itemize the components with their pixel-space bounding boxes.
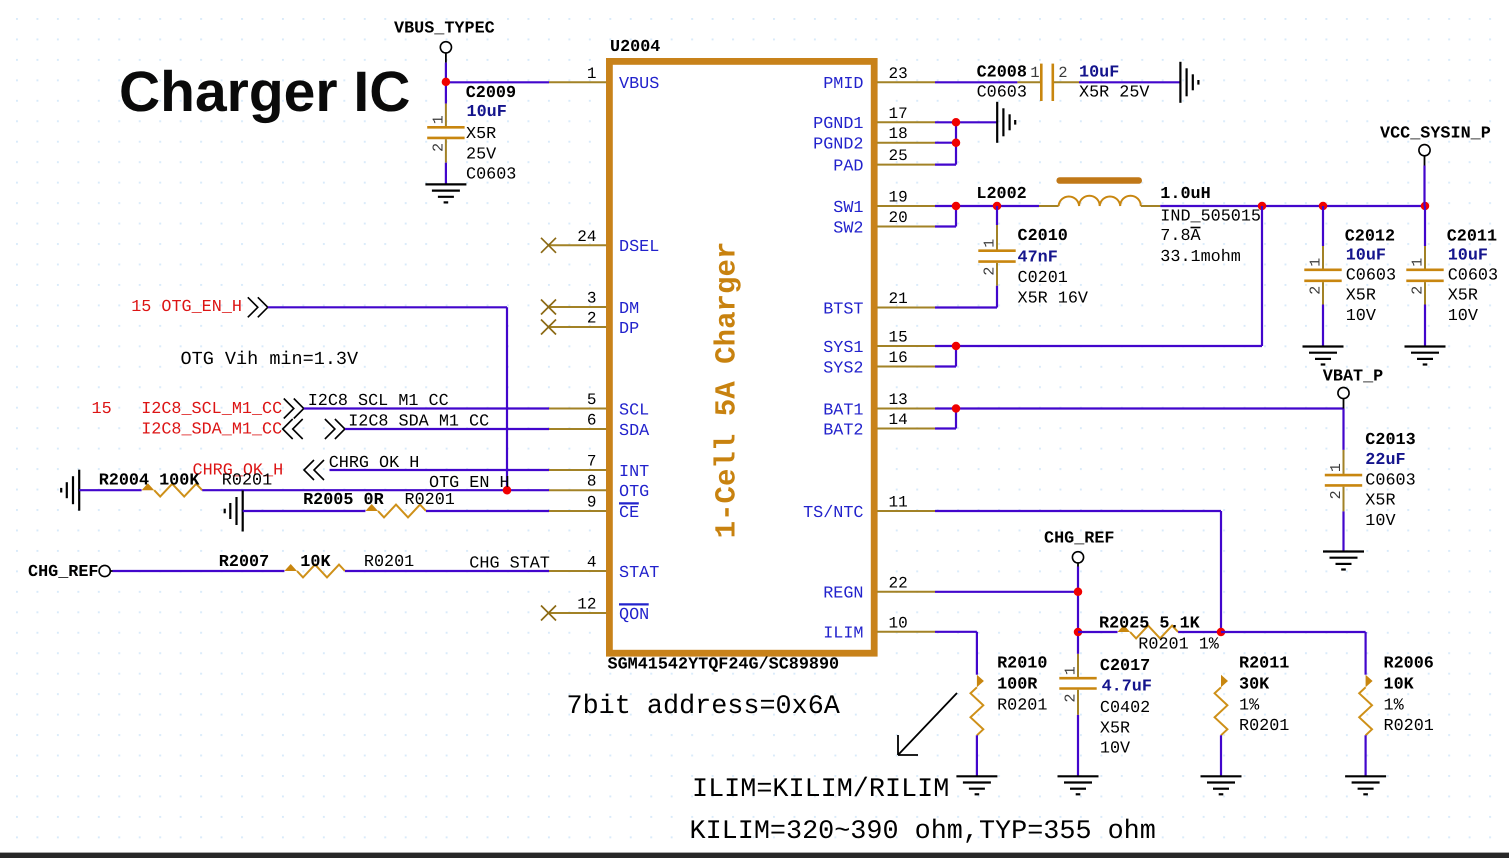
- svg-text:5: 5: [587, 391, 597, 409]
- svg-text:C2011: C2011: [1447, 228, 1497, 247]
- svg-text:CHG_REF: CHG_REF: [1044, 530, 1115, 549]
- svg-text:7: 7: [587, 453, 597, 471]
- svg-text:IND_505015: IND_505015: [1160, 207, 1261, 226]
- svg-text:R2006: R2006: [1384, 655, 1434, 674]
- svg-text:OTG: OTG: [619, 483, 649, 502]
- svg-text:22uF: 22uF: [1365, 451, 1405, 470]
- svg-text:SDA: SDA: [619, 422, 650, 441]
- svg-text:1: 1: [1328, 463, 1345, 472]
- svg-text:R0201: R0201: [997, 696, 1047, 715]
- svg-text:7.8A: 7.8A: [1160, 227, 1201, 246]
- svg-text:U2004: U2004: [610, 38, 660, 57]
- svg-text:I2C8 SCL M1 CC: I2C8 SCL M1 CC: [308, 392, 449, 411]
- svg-text:10uF: 10uF: [1448, 246, 1488, 265]
- svg-text:PGND1: PGND1: [813, 115, 863, 134]
- svg-text:R2025 5.1K: R2025 5.1K: [1099, 615, 1201, 634]
- svg-text:17: 17: [889, 105, 908, 123]
- svg-text:SGM41542YTQF24G/SC89890: SGM41542YTQF24G/SC89890: [608, 656, 840, 675]
- svg-text:REGN: REGN: [823, 585, 863, 604]
- svg-text:47nF: 47nF: [1018, 249, 1058, 268]
- svg-text:R0201: R0201: [222, 472, 272, 491]
- svg-text:PMID: PMID: [823, 75, 863, 94]
- svg-text:10K: 10K: [300, 553, 331, 572]
- svg-text:24: 24: [577, 228, 596, 246]
- svg-text:C0603: C0603: [466, 166, 516, 185]
- svg-text:X5R: X5R: [1365, 492, 1395, 511]
- svg-text:X5R 16V: X5R 16V: [1018, 290, 1089, 309]
- svg-text:20: 20: [889, 209, 908, 227]
- svg-text:X5R: X5R: [1448, 287, 1478, 306]
- svg-text:SCL: SCL: [619, 401, 649, 420]
- svg-text:33.1mohm: 33.1mohm: [1160, 248, 1241, 267]
- svg-text:6: 6: [587, 412, 597, 430]
- svg-text:1%: 1%: [1239, 696, 1260, 715]
- svg-text:19: 19: [889, 189, 908, 207]
- svg-text:4: 4: [587, 554, 597, 572]
- svg-text:9: 9: [587, 494, 597, 512]
- svg-text:10V: 10V: [1448, 307, 1478, 326]
- svg-text:CE: CE: [619, 504, 639, 523]
- svg-text:CHRG OK H: CHRG OK H: [329, 454, 420, 473]
- svg-text:R2010: R2010: [997, 655, 1047, 674]
- svg-text:ILIM=KILIM/RILIM: ILIM=KILIM/RILIM: [692, 775, 949, 805]
- svg-text:VBAT_P: VBAT_P: [1323, 368, 1383, 387]
- svg-text:16: 16: [889, 349, 908, 367]
- svg-text:BAT1: BAT1: [823, 401, 863, 420]
- svg-text:DSEL: DSEL: [619, 238, 659, 257]
- svg-text:30K: 30K: [1239, 676, 1270, 695]
- svg-text:15: 15: [889, 329, 908, 347]
- svg-text:10: 10: [889, 614, 908, 632]
- svg-text:VBUS_TYPEC: VBUS_TYPEC: [394, 20, 495, 39]
- svg-text:X5R 25V: X5R 25V: [1079, 84, 1150, 103]
- svg-text:R2005 0R: R2005 0R: [303, 491, 384, 510]
- svg-text:1.0uH: 1.0uH: [1160, 185, 1210, 204]
- svg-text:SYS2: SYS2: [823, 359, 863, 378]
- svg-text:1: 1: [1308, 258, 1325, 267]
- svg-text:QON: QON: [619, 606, 649, 625]
- svg-text:Charger IC: Charger IC: [119, 60, 410, 124]
- svg-text:C0603: C0603: [1346, 267, 1396, 286]
- svg-text:R0201 1%: R0201 1%: [1138, 635, 1219, 654]
- svg-text:X5R: X5R: [1346, 287, 1376, 306]
- svg-text:C0603: C0603: [977, 84, 1027, 103]
- svg-text:1-Cell 5A Charger: 1-Cell 5A Charger: [711, 242, 744, 539]
- svg-text:10uF: 10uF: [1346, 246, 1386, 265]
- svg-text:2: 2: [1328, 490, 1345, 499]
- svg-text:1: 1: [1030, 64, 1039, 82]
- svg-text:SW2: SW2: [833, 219, 863, 238]
- svg-text:1: 1: [587, 65, 597, 83]
- svg-text:2: 2: [1410, 286, 1427, 295]
- svg-text:R0201: R0201: [364, 553, 414, 572]
- svg-text:12: 12: [577, 596, 596, 614]
- svg-text:2: 2: [1063, 693, 1080, 702]
- svg-text:2: 2: [1058, 64, 1067, 82]
- svg-text:I2C8_SCL_M1_CC: I2C8_SCL_M1_CC: [141, 400, 282, 419]
- svg-text:15 OTG_EN_H: 15 OTG_EN_H: [131, 298, 242, 317]
- svg-text:2: 2: [430, 143, 447, 152]
- svg-text:C0603: C0603: [1365, 472, 1415, 491]
- svg-text:KILIM=320~390 ohm,TYP=355 ohm: KILIM=320~390 ohm,TYP=355 ohm: [690, 817, 1156, 847]
- svg-text:C0402: C0402: [1100, 699, 1150, 718]
- svg-text:1%: 1%: [1384, 696, 1405, 715]
- svg-text:OTG Vih min=1.3V: OTG Vih min=1.3V: [181, 349, 359, 370]
- svg-text:14: 14: [889, 411, 908, 429]
- svg-text:10V: 10V: [1346, 307, 1376, 326]
- svg-text:10K: 10K: [1384, 676, 1415, 695]
- svg-text:X5R: X5R: [466, 125, 496, 144]
- svg-text:C2017: C2017: [1100, 657, 1150, 676]
- svg-text:STAT: STAT: [619, 564, 659, 583]
- svg-text:R0201: R0201: [1384, 717, 1434, 736]
- svg-text:7bit address=0x6A: 7bit address=0x6A: [567, 692, 841, 722]
- svg-text:18: 18: [889, 125, 908, 143]
- svg-text:X5R: X5R: [1100, 719, 1130, 738]
- svg-text:TS/NTC: TS/NTC: [803, 504, 863, 523]
- svg-text:10V: 10V: [1365, 512, 1395, 531]
- svg-text:R2011: R2011: [1239, 655, 1289, 674]
- svg-text:SYS1: SYS1: [823, 339, 863, 358]
- svg-text:13: 13: [889, 391, 908, 409]
- svg-text:25V: 25V: [466, 146, 496, 165]
- svg-text:2: 2: [587, 310, 597, 328]
- svg-text:1: 1: [982, 239, 999, 248]
- svg-text:L2002: L2002: [976, 185, 1026, 204]
- svg-text:CHG_REF: CHG_REF: [28, 563, 99, 582]
- svg-text:1: 1: [1410, 258, 1427, 267]
- svg-text:DM: DM: [619, 300, 639, 319]
- svg-text:C2012: C2012: [1345, 228, 1395, 247]
- svg-text:INT: INT: [619, 463, 649, 482]
- svg-text:10V: 10V: [1100, 740, 1130, 759]
- svg-text:25: 25: [889, 147, 908, 165]
- svg-text:PAD: PAD: [833, 157, 863, 176]
- svg-text:4.7uF: 4.7uF: [1102, 677, 1152, 696]
- svg-text:1: 1: [1063, 666, 1080, 675]
- svg-text:R0201: R0201: [1239, 717, 1289, 736]
- svg-text:R2007: R2007: [219, 553, 269, 572]
- svg-text:ILIM: ILIM: [823, 625, 863, 644]
- svg-text:21: 21: [889, 290, 908, 308]
- svg-text:I2C8 SDA M1 CC: I2C8 SDA M1 CC: [348, 413, 489, 432]
- svg-text:2: 2: [982, 267, 999, 276]
- svg-text:SW1: SW1: [833, 199, 863, 218]
- svg-text:R0201: R0201: [405, 491, 455, 510]
- svg-text:10uF: 10uF: [467, 103, 507, 122]
- svg-text:R2004 100K: R2004 100K: [99, 472, 201, 491]
- svg-text:C2009: C2009: [466, 84, 516, 103]
- svg-text:BTST: BTST: [823, 300, 863, 319]
- svg-text:I2C8_SDA_M1_CC: I2C8_SDA_M1_CC: [141, 421, 282, 440]
- svg-text:11: 11: [889, 494, 908, 512]
- svg-text:C0603: C0603: [1448, 267, 1498, 286]
- svg-text:BAT2: BAT2: [823, 421, 863, 440]
- svg-text:100R: 100R: [997, 676, 1038, 695]
- svg-text:VBUS: VBUS: [619, 75, 659, 94]
- svg-text:C2013: C2013: [1365, 431, 1415, 450]
- svg-text:2: 2: [1308, 286, 1325, 295]
- svg-text:CHG STAT: CHG STAT: [469, 555, 550, 574]
- svg-text:15: 15: [92, 400, 112, 419]
- svg-text:1: 1: [430, 115, 447, 124]
- svg-text:23: 23: [889, 65, 908, 83]
- svg-text:C2008: C2008: [977, 64, 1027, 83]
- svg-text:PGND2: PGND2: [813, 136, 863, 155]
- svg-text:VCC_SYSIN_P: VCC_SYSIN_P: [1380, 125, 1491, 144]
- svg-text:22: 22: [889, 574, 908, 592]
- svg-text:3: 3: [587, 290, 597, 308]
- svg-text:8: 8: [587, 473, 597, 491]
- svg-text:C2010: C2010: [1018, 227, 1068, 246]
- svg-text:C0201: C0201: [1018, 269, 1068, 288]
- svg-text:10uF: 10uF: [1079, 64, 1119, 83]
- svg-text:DP: DP: [619, 320, 639, 339]
